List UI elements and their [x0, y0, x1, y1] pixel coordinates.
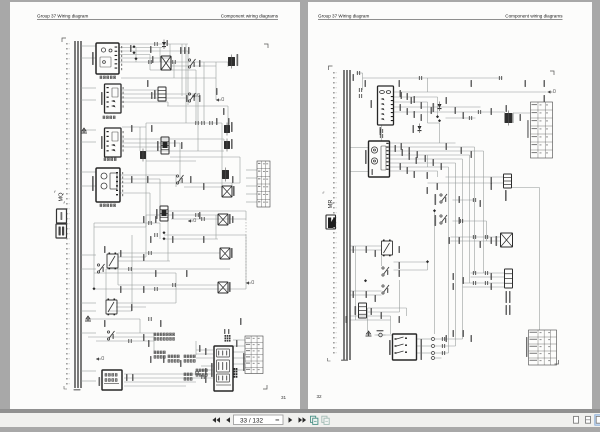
- history forward button (disabled): [322, 416, 329, 424]
- feeder wires to table T1: [246, 170, 257, 202]
- ground terminal G1: [81, 128, 87, 133]
- switch S7: [381, 285, 388, 294]
- wire harness vertical runs: [94, 44, 246, 355]
- corner mark top-left of grid: [328, 66, 332, 70]
- arrow reference A4: [96, 358, 101, 360]
- arrow reference A1: [192, 95, 197, 97]
- single page layout button: [574, 416, 579, 423]
- terminal circles column: [430, 338, 436, 360]
- relay K7: [381, 240, 392, 257]
- pin header grid G6: [184, 373, 192, 380]
- switch S1: [188, 59, 195, 68]
- navigation toolbar: [0, 413, 600, 427]
- pin header grid G2: [154, 351, 165, 358]
- pin numbers right of 3053: [122, 172, 123, 196]
- wire harness horizontal runs: [88, 44, 246, 386]
- connector table T4 (bottom right): [526, 330, 557, 365]
- diode module D2: [412, 124, 421, 134]
- svg-text:Group 37 Wiring diagram: Group 37 Wiring diagram: [37, 13, 88, 18]
- last page button: [299, 417, 307, 423]
- connector (dark) mid: [222, 168, 229, 182]
- page separator band: [0, 409, 600, 413]
- pin numbers right of 3053B: [121, 46, 122, 70]
- node reference ruler: [333, 72, 337, 354]
- cable code labels: [345, 74, 545, 360]
- corner mark bottom-right: [263, 385, 267, 389]
- bus bottom label A12: [327, 358, 348, 361]
- corner mark top-right: [550, 71, 554, 75]
- node reference ruler: [66, 43, 70, 385]
- ignition switch contact (top): [161, 56, 171, 70]
- fuse element w/ contact (row3): [157, 137, 169, 154]
- header rule: [318, 19, 563, 21]
- supply bus rails: [344, 70, 350, 360]
- heated rear window element (dark box): [504, 105, 512, 126]
- wire harness horizontal runs: [350, 73, 546, 358]
- control unit 3053 (fourth): [92, 168, 120, 202]
- corner mark top-left of grid: [62, 38, 66, 42]
- stub connector ticks left of 310: [357, 71, 361, 98]
- lamp unit L1 (box-x): [222, 186, 235, 197]
- next page button: [289, 417, 293, 423]
- relay K6: [106, 299, 117, 316]
- relay K5: [107, 253, 118, 270]
- switch S2: [188, 93, 195, 102]
- arrow reference A3: [246, 282, 251, 284]
- splice diamonds near U1: [92, 45, 165, 290]
- lamp unit L2 (box-x): [218, 214, 231, 225]
- legend box 34b: [56, 224, 67, 238]
- connector table T3 (top right): [527, 102, 552, 158]
- pin header grid G1: [154, 333, 175, 340]
- wiper motor unit 3065: [365, 141, 390, 177]
- washer pump unit (box-x): [495, 233, 512, 247]
- terminal arrow (top right): [547, 91, 552, 93]
- pin header grid G3: [168, 355, 179, 362]
- switch S5: [107, 331, 114, 340]
- diode module (top): [162, 40, 168, 50]
- legend MR: [323, 192, 334, 208]
- washer fluid symbols: [365, 330, 385, 337]
- contact marks on link: [380, 129, 382, 138]
- continuous layout button: [586, 416, 591, 423]
- relay module 3063 (second): [101, 84, 124, 113]
- svg-text:Component wiring diagrams: Component wiring diagrams: [221, 13, 279, 18]
- fuse element F5: [354, 303, 366, 318]
- svg-text:Component wiring diagrams: Component wiring diagrams: [505, 13, 563, 18]
- bus bottom label A12: [64, 386, 81, 391]
- dashed wire to connector table: [245, 219, 247, 283]
- page number input: [234, 415, 284, 425]
- switch S6: [381, 267, 388, 276]
- switch S3: [176, 175, 183, 184]
- svg-text:31: 31: [281, 395, 287, 400]
- pin header grid G4: [184, 355, 195, 362]
- lamp unit L3 (box-x): [220, 248, 233, 259]
- connector unit 34 (bottom left): [99, 370, 123, 390]
- legend MQ: [55, 191, 65, 203]
- history back button: [311, 416, 318, 424]
- main connector 310 (top): [370, 86, 393, 135]
- wire bundle hatch block: [234, 368, 238, 378]
- connector table T2: [243, 336, 263, 374]
- pin strip under 3053B: [100, 76, 116, 79]
- control unit 3053B (relay box): [92, 43, 119, 74]
- resistor block 113: [503, 174, 511, 201]
- connector table T1: [257, 161, 270, 207]
- diode module D1: [432, 102, 441, 113]
- pin strip under relay 2: [103, 116, 115, 119]
- junction tick pairs: [419, 76, 501, 355]
- svg-text:MQ: MQ: [59, 192, 65, 202]
- arrow reference A2: [188, 220, 193, 222]
- splice diamonds: [363, 115, 440, 282]
- legend logo box: [326, 215, 336, 229]
- central unit 3063 (bottom center): [211, 346, 233, 391]
- connector (dark) row3: [224, 139, 233, 152]
- corner mark top-right: [264, 44, 268, 48]
- pin strip under relay 3: [104, 158, 116, 161]
- connector 262L (dark): [228, 54, 238, 69]
- junction tick pairs: [129, 42, 212, 379]
- relay module (third): [101, 128, 124, 157]
- facing pages layout button (active): [595, 415, 600, 425]
- pin header grid G5: [196, 369, 207, 376]
- svg-text:33 / 132: 33 / 132: [240, 417, 264, 424]
- switch S4: [97, 264, 104, 273]
- previous page button: [226, 417, 230, 423]
- cable code labels: [104, 45, 242, 383]
- connector X18: [140, 149, 146, 162]
- pin strip under 3053: [100, 204, 116, 207]
- switch 905RH: [434, 215, 447, 226]
- connector (dark) row2: [224, 122, 233, 136]
- corner mark bottom-right: [554, 360, 558, 364]
- first page button: [212, 417, 220, 423]
- legend box Help: [57, 209, 67, 223]
- ground terminal G2: [85, 316, 91, 321]
- arrow reference A5: [216, 99, 221, 101]
- lamp unit L4 (box-x): [218, 282, 231, 293]
- relay unit 3063 (bottom): [389, 334, 417, 360]
- wire harness vertical runs: [355, 73, 539, 353]
- header rule: [37, 19, 278, 21]
- fuse element (row2): [154, 87, 166, 101]
- fuse element (row4): [156, 206, 168, 221]
- svg-text:Group 37 Wiring diagram: Group 37 Wiring diagram: [318, 13, 369, 18]
- switch 905LH: [434, 194, 447, 205]
- supply bus rails: [75, 41, 81, 388]
- label hatch above 3063: [224, 329, 231, 342]
- svg-text:32: 32: [316, 394, 322, 399]
- resistor block 8000: [504, 269, 512, 315]
- bus tap stubs: [81, 46, 96, 381]
